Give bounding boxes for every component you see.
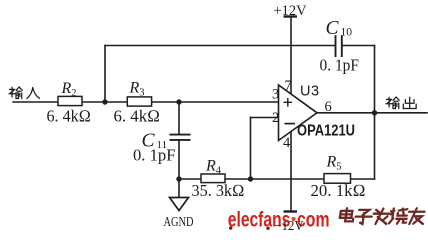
glyph you <box>407 208 425 224</box>
resistor R4 body <box>201 174 225 183</box>
wire C11 branch lower <box>178 140 180 179</box>
glyph dian <box>339 208 354 221</box>
wire pin2 branch horizontal <box>251 117 279 119</box>
op-amp U3 triangle <box>279 85 318 141</box>
glyph shao <box>389 209 408 224</box>
op-amp plus sign <box>284 98 293 107</box>
wire output <box>317 112 427 114</box>
glyph fa <box>372 209 390 224</box>
node A junction dot (R2/R3/feedback) <box>102 99 107 104</box>
glyph ru (of shuru) <box>27 87 39 98</box>
node output junction dot <box>372 110 377 115</box>
svg-text:4: 4 <box>283 135 291 151</box>
watermark dianzifashaoyou glyphs <box>339 208 425 224</box>
svg-text:7: 7 <box>285 78 292 94</box>
glyph shu (of shuru) <box>9 87 22 99</box>
svg-text:6. 4kΩ: 6. 4kΩ <box>47 107 92 126</box>
ground AGND triangle <box>170 198 189 211</box>
wire pin 4 to -12V <box>290 132 292 212</box>
svg-text:20. 1kΩ: 20. 1kΩ <box>311 181 366 200</box>
wire R2 to R3 <box>82 101 127 103</box>
glyph chu (of shuchu) <box>403 97 416 108</box>
wire R3 to op-amp pin 3 <box>152 101 279 103</box>
node bottom junction dot (C11/R4/AGND) <box>176 176 181 181</box>
AGND stem <box>178 179 180 198</box>
node B junction dot (R3/C11/pin3) <box>176 99 181 104</box>
svg-text:35. 3kΩ: 35. 3kΩ <box>192 181 245 200</box>
resistor R2 body <box>58 96 82 105</box>
svg-text:com: com <box>297 208 330 231</box>
capacitor C11 plates <box>170 135 191 140</box>
capacitor C10 plates <box>336 35 342 57</box>
-12V supply bar <box>284 210 298 212</box>
+12V supply bar <box>284 15 298 17</box>
wire R4 to R5 <box>225 178 324 180</box>
glyph shu (of shuchu) <box>386 97 399 109</box>
wire C11 branch upper <box>178 102 180 134</box>
wire +12V to pin 7 <box>290 18 292 95</box>
wire top feedback to C10 <box>105 45 335 47</box>
svg-text:0. 1pF: 0. 1pF <box>320 56 360 75</box>
op-amp minus sign <box>285 123 296 125</box>
svg-text:2: 2 <box>272 110 279 126</box>
watermark elecfans.com <box>228 208 330 231</box>
wire C10 to right rail <box>343 45 375 47</box>
node pin2 junction dot (R4/R5/pin2) <box>248 176 253 181</box>
resistor R5 body <box>324 174 351 184</box>
wire input to R2 <box>13 101 58 103</box>
resistor R3 body <box>127 97 151 106</box>
glyph zi <box>355 210 373 224</box>
svg-text:elecfans: elecfans <box>228 208 291 231</box>
svg-text:+12V: +12V <box>274 3 308 19</box>
svg-text:OPA121U: OPA121U <box>297 123 355 140</box>
label shuru (input) glyphs <box>9 87 39 99</box>
wire right rail <box>374 46 376 180</box>
wire R5 to right rail <box>351 178 375 180</box>
label shuchu (output) glyphs <box>386 97 416 109</box>
wire bottom node to R4 <box>179 178 201 180</box>
svg-text:3: 3 <box>272 87 279 103</box>
svg-text:6. 4kΩ: 6. 4kΩ <box>114 107 161 126</box>
wire node A riser to top feedback <box>104 46 106 103</box>
svg-text:6: 6 <box>325 99 332 115</box>
svg-text:AGND: AGND <box>164 215 194 230</box>
svg-text:U3: U3 <box>300 84 320 100</box>
svg-text:0. 1pF: 0. 1pF <box>133 146 176 165</box>
wire pin2 branch vertical <box>250 118 252 180</box>
